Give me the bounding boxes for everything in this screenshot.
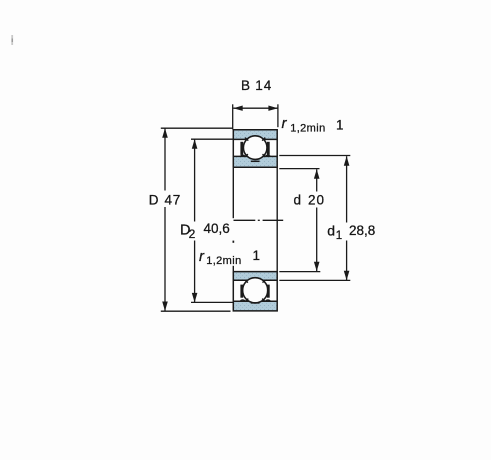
label D2 40,6 [179,221,231,241]
label B 14 [241,78,272,93]
svg-text:r: r [282,115,288,132]
svg-text:28,8: 28,8 [349,223,375,238]
inner raceway shoulder notch left [245,154,248,157]
D bottom extension line [161,310,231,312]
d dimension line [316,169,318,271]
inner ring (bottom, blue) [234,272,277,281]
inner raceway shoulder notch right [263,154,266,157]
outer shoulder bump right [265,300,271,301]
cage bar left [240,142,243,155]
outer ring (top, blue) [234,129,277,139]
svg-text:1: 1 [253,248,261,263]
section bottom (bore) line [233,166,278,168]
d arrow up [314,169,320,179]
outer raceway shoulder notch right [262,138,265,141]
inner raceway shoulder notch left [245,280,248,283]
svg-text:2: 2 [189,227,196,241]
d1 bottom extension line [279,279,350,281]
svg-text:B: B [241,78,250,93]
d1 arrow down [344,271,350,281]
D2 arrow up [192,139,198,149]
section top (bore) line [233,271,278,273]
svg-text:1: 1 [336,118,344,133]
B arrow right [268,106,278,111]
stray scan smudge left [11,35,13,45]
groove top tick above ball [251,302,260,304]
cage bar right [267,142,270,155]
cage bar right [267,285,270,298]
inner shoulder bump right [265,155,270,156]
B left extension line [232,104,234,129]
outer ring raceway line [233,300,277,302]
D2 top extension line [191,138,233,140]
d1 dimension line [346,156,348,280]
outer ring raceway line [233,138,277,140]
B arrow left [233,106,243,111]
D top extension line [161,127,233,129]
svg-text:20: 20 [308,193,325,208]
svg-text:D: D [149,192,159,207]
svg-text:d: d [294,193,302,208]
svg-text:14: 14 [255,78,272,93]
inner ring raceway line (shoulder) [233,279,277,281]
bore left edge dot [233,241,235,243]
label r 1,2min 1 (top right) [282,115,344,135]
D arrow down [162,302,168,312]
inner raceway shoulder notch right [263,280,266,283]
inner ring raceway line [233,155,277,157]
groove bottom tick under ball [251,160,260,162]
section outline [233,272,277,311]
inner ring (top, blue) [234,156,277,167]
inner shoulder bump left [240,155,245,156]
bore right edge [276,167,278,271]
d1 top extension line [279,155,350,157]
svg-text:1: 1 [336,230,342,242]
D dimension line [164,128,166,311]
label d1 28,8 [326,223,377,243]
svg-text:1,2min: 1,2min [290,123,325,135]
B right extension line [277,104,279,127]
d arrow down [314,262,320,272]
d top extension line [279,168,319,170]
ball [243,278,268,303]
svg-text:47: 47 [165,192,181,207]
label d 20 [292,192,328,208]
d bottom extension line [279,271,320,273]
B dimension line [233,107,278,109]
center axis dash-dot line [234,219,284,221]
D2 arrow down [192,293,198,303]
bore left edge upper segment [232,167,234,218]
outer raceway shoulder notch left [245,299,248,302]
cage bar left [240,285,243,298]
section outline [233,130,277,168]
D arrow up [162,128,168,138]
D2 dimension line [194,139,196,302]
svg-text:40,6: 40,6 [204,221,230,236]
outer shoulder bump left [240,300,246,301]
label D 47 [147,191,181,208]
label r 1,2min 1 (left, inside) [198,248,261,267]
ball [243,136,267,160]
D2 bottom extension line [191,301,234,303]
svg-text:1,2min: 1,2min [206,255,241,267]
svg-text:d: d [327,223,335,239]
outer raceway shoulder notch right [262,299,265,302]
bore left edge lower segment [232,266,234,272]
outer ring (bottom, blue) [234,301,277,311]
outer raceway shoulder notch left [245,138,248,141]
d1 arrow up [344,156,350,166]
